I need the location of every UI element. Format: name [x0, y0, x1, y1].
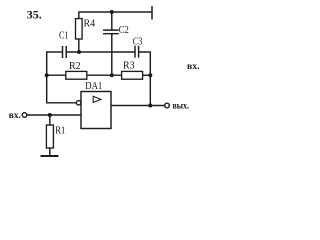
op-amp inverting input circle: [76, 101, 80, 105]
wire node-A middle segment (C1 to C3): [66, 51, 135, 53]
svg-text:R2: R2: [69, 61, 81, 72]
wire R1 top stub: [49, 115, 51, 125]
svg-text:вых.: вых.: [173, 101, 190, 111]
junction dot output / right rail: [148, 104, 152, 108]
svg-text:35.: 35.: [27, 8, 42, 22]
wire node-A left segment (to C1): [47, 51, 63, 53]
op-amp triangle symbol: [93, 96, 101, 102]
svg-text:вх.: вх.: [9, 111, 21, 121]
capacitor C2 bottom stub (crosses node-A wire): [111, 34, 113, 75]
svg-text:R1: R1: [55, 126, 65, 137]
wire top rail: [79, 11, 152, 13]
op-amp DA1 body: [81, 92, 111, 129]
resistor R4: [76, 19, 83, 39]
wire R1 bottom stub: [49, 148, 51, 156]
wire R4 bottom stub: [78, 39, 80, 52]
svg-text:C2: C2: [119, 25, 129, 36]
svg-text:DA1: DA1: [85, 81, 102, 92]
resistor R3: [122, 71, 143, 79]
junction dot left rail / R2: [45, 73, 49, 77]
junction dot right rail / R3: [148, 73, 152, 77]
svg-text:R3: R3: [123, 61, 135, 72]
svg-text:C1: C1: [59, 31, 69, 42]
chassis terminal (top right): [151, 6, 153, 20]
wire R4 top stub: [78, 12, 80, 19]
capacitor C1: [63, 46, 67, 58]
wire node-A right segment + right rail down: [139, 52, 151, 106]
node A junction (R4 bottom): [77, 50, 81, 54]
junction dot top rail / C2: [110, 10, 114, 14]
wire R2 to R3: [87, 74, 122, 76]
junction dot input / R1: [48, 113, 52, 117]
ground: [41, 155, 59, 157]
input terminal circle (вх.): [22, 113, 27, 118]
capacitor C2 plates: [103, 30, 119, 34]
wire input to op-amp: [27, 114, 81, 116]
wire R2 left stub: [47, 74, 66, 76]
junction dot node B (C2 bottom): [110, 73, 114, 77]
svg-text:C3: C3: [133, 37, 143, 48]
left rail (C1 node down to inverting input): [47, 51, 77, 102]
wire op-amp output: [111, 105, 165, 107]
resistor R2: [66, 71, 87, 79]
wire R3 right stub: [143, 74, 151, 76]
svg-text:R4: R4: [84, 19, 96, 30]
output terminal circle (вых.): [165, 103, 170, 108]
capacitor C2 top stub: [111, 12, 113, 30]
capacitor C3: [135, 46, 139, 58]
svg-text:вх.: вх.: [187, 62, 200, 72]
resistor R1: [46, 125, 53, 148]
